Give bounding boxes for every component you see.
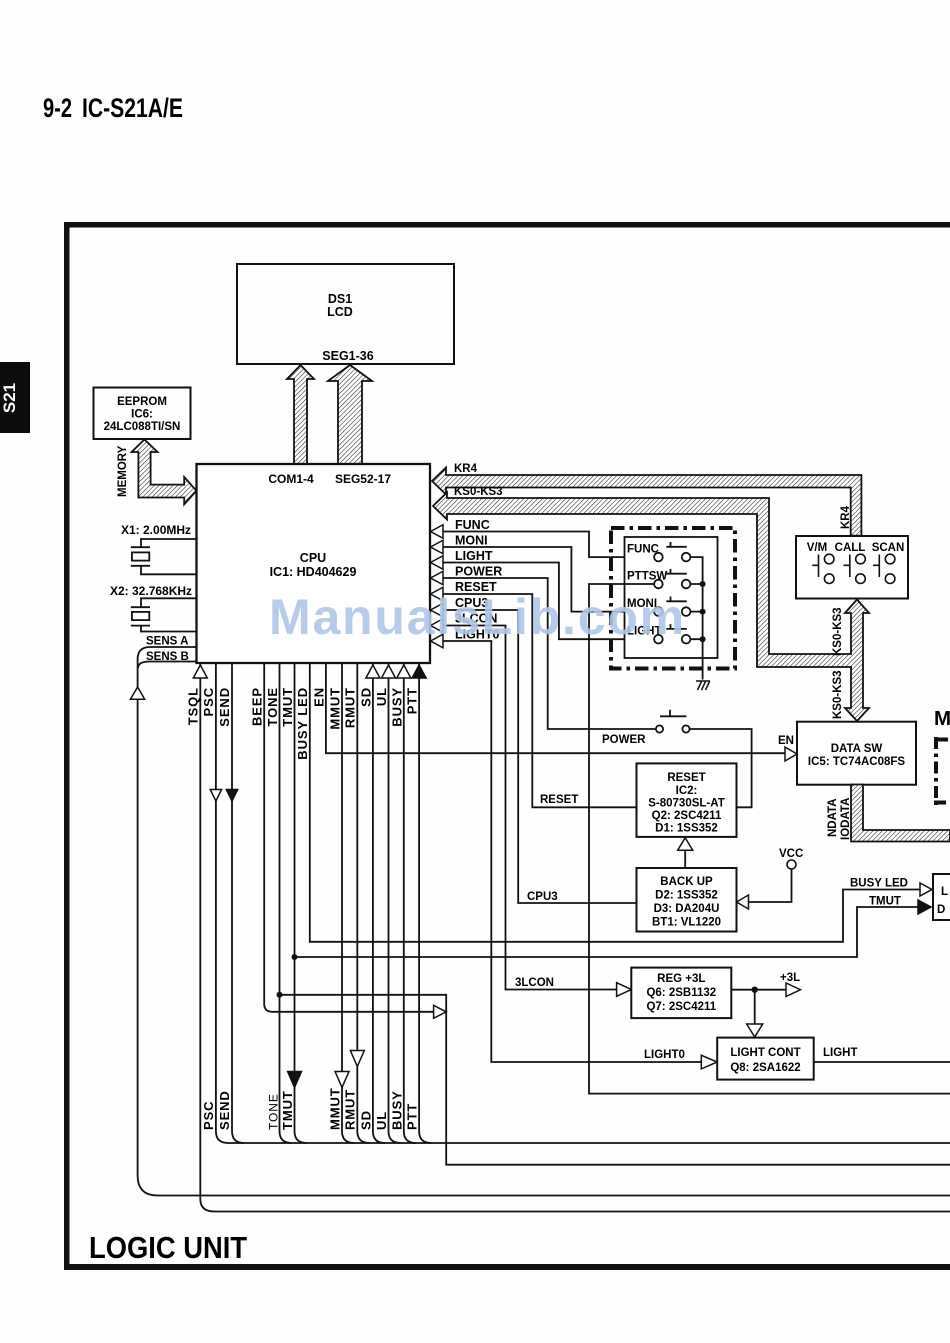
svg-text:RMUT: RMUT xyxy=(343,1089,358,1130)
svg-text:SEG52-17: SEG52-17 xyxy=(335,472,391,486)
svg-text:BACK UP: BACK UP xyxy=(660,876,713,888)
CPU output wire CPU3 xyxy=(443,610,637,903)
svg-text:SCAN: SCAN xyxy=(872,542,905,554)
arrowhead BEEP right xyxy=(434,1005,447,1018)
svg-text:TMUT: TMUT xyxy=(869,896,901,908)
wire REG output to +3L xyxy=(731,989,786,991)
svg-text:BUSY: BUSY xyxy=(390,687,405,727)
pin arrow into LIGHT CONT xyxy=(701,1055,717,1069)
DATA SW IC5 box xyxy=(797,722,916,785)
arrowhead TMUT filled into right box xyxy=(918,900,931,914)
wire PTT xyxy=(419,663,431,1143)
svg-text:RESET: RESET xyxy=(667,772,705,784)
svg-text:PSC: PSC xyxy=(201,1101,216,1130)
svg-text:KR4: KR4 xyxy=(840,505,852,529)
svg-text:D3: DA204U: D3: DA204U xyxy=(654,903,720,915)
pin arrow MONI xyxy=(431,540,444,554)
junction dots keypad bus xyxy=(700,581,706,587)
power switch xyxy=(656,710,690,733)
CPU output wire RESET xyxy=(443,594,637,807)
wire TMUT vertical xyxy=(295,663,307,1143)
wire LIGHT output to right edge xyxy=(814,1061,950,1063)
svg-text:S-80730SL-AT: S-80730SL-AT xyxy=(648,798,724,810)
svg-text:RMUT: RMUT xyxy=(343,687,358,728)
CPU output wire LIGHT xyxy=(443,563,654,640)
svg-text:LIGHT: LIGHT xyxy=(455,549,493,563)
wire TMUT to right edge connector xyxy=(295,907,919,957)
svg-text:Q8: 2SA1622: Q8: 2SA1622 xyxy=(730,1062,800,1074)
svg-text:IODATA: IODATA xyxy=(840,798,852,840)
svg-text:DATA SW: DATA SW xyxy=(831,743,883,755)
svg-text:PTTSW: PTTSW xyxy=(627,571,667,583)
svg-text:CPU3: CPU3 xyxy=(527,891,558,903)
svg-text:BUSY: BUSY xyxy=(390,1090,405,1130)
svg-text:COM1-4: COM1-4 xyxy=(268,472,314,486)
switch SCAN xyxy=(873,554,895,583)
svg-text:BT1: VL1220: BT1: VL1220 xyxy=(652,917,721,929)
switch MONI xyxy=(654,597,690,616)
wire VCC to back up xyxy=(749,869,792,902)
svg-text:SD: SD xyxy=(359,687,374,707)
wire BUSY xyxy=(404,663,416,1143)
svg-text:D: D xyxy=(937,904,945,916)
bus arrow COM1-4 (hatched) xyxy=(287,365,314,464)
svg-text:KS0-KS3: KS0-KS3 xyxy=(454,486,503,498)
svg-text:EN: EN xyxy=(778,735,794,747)
svg-text:BEEP: BEEP xyxy=(250,687,265,726)
bus arrow SEG52-17 (hatched) xyxy=(328,365,372,464)
bus line bottom to right edge xyxy=(227,1142,950,1144)
svg-text:CALL: CALL xyxy=(835,542,866,554)
switch LIGHT (keypad) xyxy=(654,624,690,643)
svg-text:VCC: VCC xyxy=(779,848,803,860)
pin arrow RESET xyxy=(431,587,444,601)
side tab S21 xyxy=(0,362,30,433)
svg-text:TSQL: TSQL xyxy=(186,687,201,725)
svg-text:M: M xyxy=(934,707,950,730)
svg-text:Q6: 2SB1132: Q6: 2SB1132 xyxy=(646,987,716,999)
wire SENS vertical down to bottom xyxy=(138,659,950,1196)
svg-text:PTT: PTT xyxy=(405,687,420,714)
arrow down RMUT xyxy=(350,1051,364,1067)
wire PTTSW down to bottom edge xyxy=(589,584,950,1094)
svg-text:MMUT: MMUT xyxy=(328,1087,343,1130)
CPU output wire MONI xyxy=(443,547,654,612)
svg-text:SEND: SEND xyxy=(217,1090,232,1130)
svg-text:Q2: 2SC4211: Q2: 2SC4211 xyxy=(652,810,722,822)
labels under CPU (rotated) xyxy=(186,687,420,760)
arrowhead up (back up to reset) xyxy=(678,838,693,851)
svg-text:MMUT: MMUT xyxy=(328,687,343,730)
svg-text:KS0-KS3: KS0-KS3 xyxy=(832,607,844,656)
wire SEND xyxy=(232,663,244,1143)
arrowhead left into back up xyxy=(737,895,749,909)
svg-text:KR4: KR4 xyxy=(454,463,478,475)
arrowhead down into LIGHT CONT xyxy=(747,1024,763,1037)
svg-text:X1: 2.00MHz: X1: 2.00MHz xyxy=(121,523,191,537)
svg-text:POWER: POWER xyxy=(455,565,502,579)
wire power switch to reset box xyxy=(690,729,752,807)
pin arrow PTT up (filled) xyxy=(412,665,426,678)
CPU output wire FUNC xyxy=(443,532,654,558)
LIGHT CONT box xyxy=(717,1038,814,1080)
svg-text:SENS B: SENS B xyxy=(146,651,189,663)
CPU output wire 3LCON xyxy=(443,626,617,990)
labels at bottom bends (rotated) xyxy=(201,1087,420,1130)
arrow down MMUT xyxy=(335,1072,349,1088)
svg-text:UL: UL xyxy=(374,687,389,706)
display DS1 LCD xyxy=(237,264,454,364)
arrow down TMUT (filled) xyxy=(288,1072,302,1088)
keypad inner box xyxy=(625,537,718,658)
MEMORY bus arrow (hatched, L-shaped double head) xyxy=(132,440,197,505)
svg-text:BUSY LED: BUSY LED xyxy=(295,687,310,760)
svg-text:LCD: LCD xyxy=(327,305,353,319)
pin arrow 3LCON xyxy=(431,619,444,633)
svg-text:SENS A: SENS A xyxy=(146,636,188,648)
junction dot +3L node xyxy=(752,987,758,993)
svg-text:LIGHT CONT: LIGHT CONT xyxy=(730,1047,800,1059)
svg-text:Q7: 2SC4211: Q7: 2SC4211 xyxy=(646,1001,716,1013)
svg-text:LIGHT0: LIGHT0 xyxy=(644,1049,685,1061)
svg-text:TONE: TONE xyxy=(265,687,280,726)
wire BEEP xyxy=(264,663,433,1012)
connector box at right edge (cut off) xyxy=(933,874,950,920)
frame border (logic unit) xyxy=(64,222,950,1270)
svg-text:V/M: V/M xyxy=(807,542,827,554)
svg-text:UL: UL xyxy=(374,1111,389,1130)
wire TSQL xyxy=(200,663,950,1212)
arrowhead BUSY LED into right box xyxy=(920,883,932,896)
svg-text:3LCON: 3LCON xyxy=(515,977,554,989)
wire PSC xyxy=(216,663,228,1143)
svg-text:IC5: TC74AC08FS: IC5: TC74AC08FS xyxy=(808,756,905,768)
svg-text:+3L: +3L xyxy=(780,972,800,984)
wire +3L down to light cont xyxy=(754,990,756,1024)
wire BUSY LED to right edge connector xyxy=(310,663,920,942)
wire EN xyxy=(326,663,785,753)
switch PTTSW xyxy=(654,569,690,588)
svg-text:ManualsLib.com: ManualsLib.com xyxy=(269,589,686,645)
bus KR4 (hatched) from CPU to V/M box xyxy=(432,468,861,536)
bus KS0-KS3 (hatched) CPU to V/M and DATA SW xyxy=(433,493,869,722)
pin arrow BUSY up xyxy=(397,665,411,678)
ground (keypad) xyxy=(696,681,710,690)
svg-text:MONI: MONI xyxy=(455,534,488,548)
BACK UP box xyxy=(637,868,737,932)
svg-text:SD: SD xyxy=(359,1110,374,1130)
svg-text:BUSY LED: BUSY LED xyxy=(850,878,908,890)
arrowhead on SENS wire xyxy=(130,687,144,699)
arrow down SEND (filled) xyxy=(226,790,237,802)
pin arrow POWER xyxy=(431,571,444,585)
pin arrow SD up xyxy=(366,665,380,678)
svg-text:SEG1-36: SEG1-36 xyxy=(322,349,373,363)
V/M CALL SCAN switch box xyxy=(796,536,908,599)
svg-text:24LC088TI/SN: 24LC088TI/SN xyxy=(104,421,181,433)
wire TONE branch to right xyxy=(280,995,950,1165)
switch V/M xyxy=(812,554,834,583)
svg-text:REG +3L: REG +3L xyxy=(657,973,705,985)
RESET IC2 box xyxy=(637,763,737,837)
wire RMUT xyxy=(357,663,369,1143)
svg-text:TMUT: TMUT xyxy=(280,1090,295,1130)
svg-text:TONE: TONE xyxy=(267,1093,281,1130)
svg-text:IC1: HD404629: IC1: HD404629 xyxy=(270,565,357,579)
svg-text:L: L xyxy=(941,886,948,898)
junction dot TMUT xyxy=(292,954,298,960)
bus NDATA/IODATA (hatched) xyxy=(851,785,950,842)
svg-text:LOGIC UNIT: LOGIC UNIT xyxy=(89,1230,247,1265)
REG +3L box xyxy=(631,968,731,1019)
svg-text:IC-S21A/E: IC-S21A/E xyxy=(82,93,183,123)
junction dot TONE branch xyxy=(277,992,283,998)
wire SD xyxy=(373,663,385,1143)
svg-text:D2: 1SS352: D2: 1SS352 xyxy=(655,890,718,902)
wire TONE xyxy=(280,663,292,1143)
wire UL xyxy=(389,663,401,1143)
pin arrow LIGHT0 xyxy=(431,634,444,648)
CPU output wire POWER xyxy=(443,578,656,729)
switch CALL xyxy=(844,554,866,583)
dash-dot box corner (cut off at right edge) xyxy=(934,737,950,805)
pin arrow FUNC xyxy=(431,525,444,539)
svg-text:X2: 32.768KHz: X2: 32.768KHz xyxy=(110,584,192,598)
pin arrow CPU3 xyxy=(431,603,444,617)
arrowhead +3L xyxy=(786,983,801,997)
wire back up to reset xyxy=(684,849,686,868)
svg-text:NDATA: NDATA xyxy=(827,798,839,837)
CPU output wire LIGHT0 xyxy=(443,641,701,1062)
svg-text:CPU: CPU xyxy=(300,551,326,565)
svg-text:MEMORY: MEMORY xyxy=(117,445,129,497)
svg-text:IC6:: IC6: xyxy=(131,409,153,421)
svg-text:FUNC: FUNC xyxy=(455,518,490,532)
svg-text:EN: EN xyxy=(312,687,327,707)
EEPROM IC6 box xyxy=(94,388,191,440)
svg-text:D1: 1SS352: D1: 1SS352 xyxy=(655,823,718,835)
wire SENS B xyxy=(138,662,197,669)
svg-text:DS1: DS1 xyxy=(328,292,352,306)
keypad switch unit (dash-dot box) xyxy=(611,528,735,669)
wire SENS A xyxy=(138,647,197,659)
svg-text:KS0-KS3: KS0-KS3 xyxy=(832,670,844,719)
pin arrow EN into DATA SW xyxy=(785,747,797,761)
svg-text:FUNC: FUNC xyxy=(627,544,659,556)
svg-text:RESET: RESET xyxy=(540,794,578,806)
pin arrow into REG +3L xyxy=(617,983,632,997)
pin arrow UL up xyxy=(382,665,396,678)
svg-text:9-2: 9-2 xyxy=(43,93,72,123)
switch FUNC xyxy=(654,542,690,561)
svg-text:IC2:: IC2: xyxy=(676,785,698,797)
svg-text:POWER: POWER xyxy=(602,734,646,746)
pin arrow TSQL up xyxy=(193,665,207,678)
CPU IC1 box xyxy=(197,464,431,663)
keypad common bus wire xyxy=(690,557,702,679)
svg-text:SEND: SEND xyxy=(217,687,232,727)
svg-text:LIGHT: LIGHT xyxy=(823,1047,858,1059)
arrow down PSC xyxy=(210,790,221,802)
svg-text:PTT: PTT xyxy=(405,1103,420,1130)
crystal X1 2.00MHz xyxy=(131,539,197,574)
wire MMUT xyxy=(342,663,354,1143)
svg-text:EEPROM: EEPROM xyxy=(117,396,167,408)
svg-text:PSC: PSC xyxy=(201,687,216,716)
crystal X2 32.768KHz xyxy=(131,598,197,631)
svg-text:S21: S21 xyxy=(0,383,19,413)
pin arrow LIGHT xyxy=(431,556,444,570)
svg-text:TMUT: TMUT xyxy=(280,687,295,727)
